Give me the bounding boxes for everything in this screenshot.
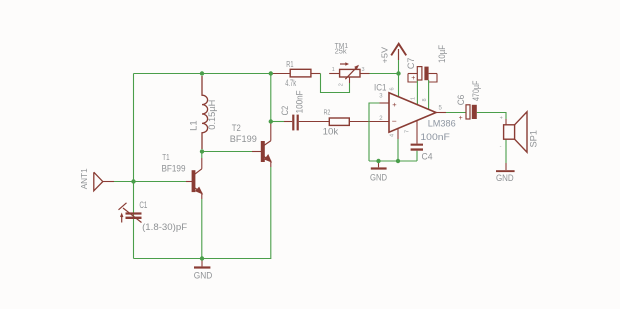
svg-text:SP1: SP1 (529, 130, 539, 148)
wire node to C2 (271, 121, 284, 123)
capacitor C4 plates (411, 144, 423, 146)
svg-text:−: − (392, 116, 397, 126)
svg-text:C6: C6 (456, 95, 466, 106)
antenna ANT1 (94, 172, 103, 191)
capacitor C1 trimmer plates (126, 212, 142, 214)
ground bar speaker (496, 170, 515, 172)
svg-text:T2: T2 (232, 123, 241, 133)
svg-text:+: + (392, 100, 397, 109)
svg-text:GND: GND (370, 172, 387, 182)
wire +5V stem (398, 60, 400, 74)
ground bar under op-amp (371, 167, 387, 169)
svg-text:C1: C1 (139, 200, 147, 210)
node top rail / L1 (200, 71, 204, 75)
node antenna / left rail (131, 179, 135, 183)
svg-text:ANT1: ANT1 (79, 168, 89, 189)
wire T1 base (134, 181, 187, 183)
supply +5V arrow (398, 49, 400, 60)
wire op-amp pin 7 to C4 (416, 121, 418, 144)
capacitor C6 polarized (466, 105, 470, 119)
wire L1 bottom to T2 base (202, 151, 252, 153)
wire top rail (134, 73, 271, 75)
node L1 bottom / T1 collector / T2 base (200, 149, 204, 153)
svg-text:(1.8-30)pF: (1.8-30)pF (142, 222, 188, 232)
svg-text:T1: T1 (162, 152, 169, 162)
svg-text:+: + (459, 115, 463, 122)
wire C7 right pin loop to pin 8 (429, 73, 437, 75)
svg-text:25k: 25k (335, 46, 347, 55)
wire ground rail under op-amp (369, 160, 417, 162)
svg-text:BF199: BF199 (230, 134, 257, 144)
svg-text:470µF: 470µF (471, 80, 481, 101)
svg-text:10µF: 10µF (437, 45, 447, 63)
svg-text:L1: L1 (188, 120, 198, 131)
svg-text:IC1: IC1 (374, 82, 387, 92)
wire C4 bottom (416, 151, 418, 161)
wire T2 collector to top rail (270, 74, 272, 122)
wire op-amp output to C6 (436, 112, 446, 114)
transistor T2 (261, 141, 271, 162)
wire T2 emitter to bottom rail (270, 167, 272, 259)
wire TM1 wiper loop (321, 74, 350, 93)
wire op-amp pin 3 to ground rail (380, 102, 390, 104)
capacitor C2 plates (292, 115, 294, 131)
wire C7 left pin loop to pin 1 (408, 73, 417, 75)
wire op-amp pin 6 (398, 74, 400, 98)
svg-text:2: 2 (339, 83, 345, 86)
wire op-amp pin 4 down (397, 129, 399, 139)
op-amp IC1 triangle (389, 93, 436, 132)
wire C2 to R2 (299, 121, 330, 123)
node T2 collector / C2 (269, 119, 273, 123)
svg-text:+: + (500, 116, 503, 122)
node +5V / TM1 / pin6 (396, 71, 400, 75)
wire T1 collector vertical (201, 158, 203, 169)
svg-text:6: 6 (389, 87, 395, 90)
svg-text:GND: GND (194, 270, 213, 280)
svg-text:3: 3 (362, 67, 365, 73)
wire antenna to left rail (103, 181, 115, 183)
node ground rail / pin 4 (396, 159, 400, 163)
svg-text:GND: GND (496, 173, 514, 183)
svg-text:0.15µH: 0.15µH (207, 100, 217, 130)
svg-text:BF199: BF199 (162, 163, 186, 173)
wire T1 emitter vertical (201, 193, 203, 199)
svg-text:+: + (411, 75, 415, 82)
capacitor C1 trimmer arrow (119, 203, 142, 223)
svg-text:4: 4 (390, 134, 396, 137)
svg-text:100nF: 100nF (420, 132, 450, 142)
svg-text:+5V: +5V (379, 47, 389, 64)
wire R2 to op-amp pin 2 (349, 121, 389, 123)
svg-text:1: 1 (411, 97, 417, 100)
ground bar bottom (194, 266, 210, 268)
svg-text:8: 8 (422, 98, 428, 101)
inductor L1 (202, 76, 208, 149)
capacitor C7 polarized (417, 67, 422, 80)
svg-text:100nF: 100nF (294, 90, 304, 113)
wire node to R1 (272, 73, 290, 75)
wire bottom rail (134, 258, 272, 260)
svg-text:C4: C4 (422, 151, 433, 161)
svg-text:7: 7 (405, 130, 411, 133)
svg-text:R2: R2 (324, 107, 331, 116)
svg-text:LM386: LM386 (428, 118, 456, 128)
svg-text:C7: C7 (406, 58, 416, 70)
trimmer TM1 body (340, 69, 360, 77)
svg-text:1: 1 (332, 67, 335, 73)
svg-text:-: - (500, 144, 502, 150)
wire speaker to ground (505, 139, 507, 163)
node top rail / R1 / T2 collector (269, 71, 273, 75)
trimmer TM1 adjust arrow (340, 63, 347, 65)
wire left rail (133, 74, 135, 259)
svg-text:R1: R1 (286, 60, 294, 69)
node bottom rail / T1 emitter / GND (200, 256, 204, 260)
resistor R2 (329, 118, 349, 125)
speaker SP1 (504, 125, 515, 139)
wire ground symbol stem under op-amp (378, 161, 380, 167)
wire TM1 pin3 to +5V node (360, 73, 370, 75)
svg-text:C2: C2 (280, 106, 290, 116)
wire C6 to speaker (477, 113, 506, 120)
transistor T1 (192, 169, 202, 194)
svg-text:10k: 10k (323, 126, 339, 136)
wire R1 right (311, 73, 321, 75)
svg-text:4.7k: 4.7k (285, 78, 296, 88)
resistor R1 (290, 69, 311, 77)
wire ground symbol stem bottom (201, 259, 203, 267)
wire TM1 pin1 stub (329, 73, 339, 75)
trimmer TM1 diagonal arrow (345, 66, 358, 79)
node ground rail / GND symbol (376, 159, 380, 163)
